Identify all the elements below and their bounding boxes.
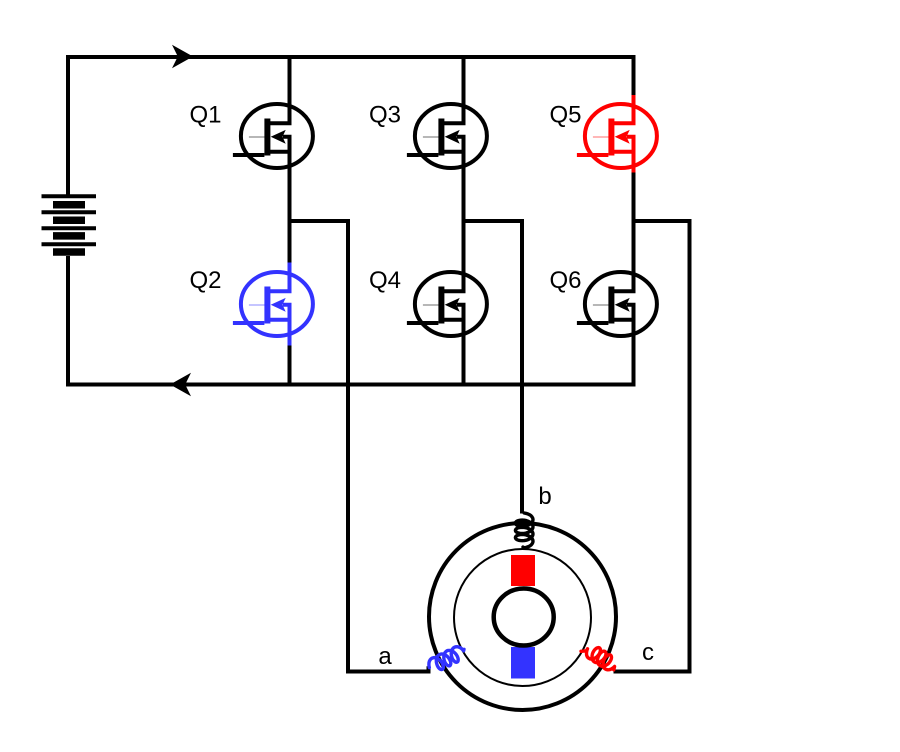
wire: Q4 source to bottom bus <box>462 345 466 385</box>
wire: Q5 source to Q6 drain <box>632 173 636 264</box>
winding coil b <box>515 513 533 548</box>
current direction arrow (top, pointing right) <box>172 45 193 68</box>
wire: Q2 source to bottom bus <box>288 345 292 385</box>
svg-text:Q3: Q3 <box>369 102 401 129</box>
transistor Q4 <box>369 263 487 346</box>
transistor Q6 <box>549 263 656 346</box>
svg-text:b: b <box>538 483 551 510</box>
motor stator outer circle <box>429 523 616 710</box>
wire: Q6 source to bottom bus <box>632 345 636 385</box>
transistor Q5 <box>549 95 656 178</box>
rotor magnet south (blue) <box>511 647 535 679</box>
motor stator inner circle <box>454 549 591 686</box>
wire: phase a from Q1/Q2 node to motor winding a <box>290 221 429 672</box>
wire: Q5 drain to top bus <box>632 57 636 95</box>
svg-text:a: a <box>378 643 392 670</box>
wire: battery negative to bottom bus to Q5/Q6 column <box>68 256 636 385</box>
svg-text:Q2: Q2 <box>189 267 221 294</box>
svg-text:Q6: Q6 <box>549 267 581 294</box>
wire: Q3 source to Q4 drain <box>462 177 466 264</box>
transistor Q2 <box>189 263 312 346</box>
svg-text:c: c <box>642 639 654 666</box>
wire: phase b from Q3/Q4 node to motor winding b <box>464 221 523 514</box>
winding coil c <box>581 648 615 670</box>
battery B1 <box>42 196 97 252</box>
winding coil a <box>429 647 464 670</box>
wire: top bus from battery to Q5 column <box>68 57 636 196</box>
wire: Q3 drain to top bus <box>462 57 466 95</box>
svg-text:Q5: Q5 <box>549 102 581 129</box>
rotor magnet north (red) <box>511 555 535 586</box>
wire: Q1 drain to top bus <box>288 57 292 95</box>
svg-text:Q4: Q4 <box>369 267 401 294</box>
transistor Q3 <box>369 95 487 178</box>
rotor hub circle <box>494 589 554 646</box>
svg-text:Q1: Q1 <box>189 102 221 129</box>
current direction arrow (bottom, pointing left) <box>170 373 191 396</box>
transistor Q1 <box>189 95 312 178</box>
wire: Q1 source to Q2 drain <box>288 177 292 264</box>
wire: phase c from Q5/Q6 node to motor winding c <box>614 221 690 672</box>
